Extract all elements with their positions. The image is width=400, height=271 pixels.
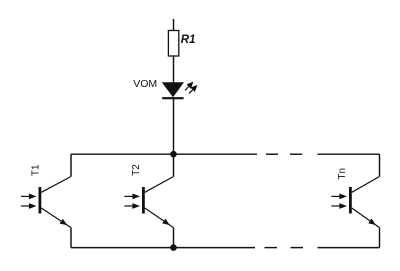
svg-text:VOM: VOM	[133, 78, 157, 90]
transistor T2 light input arrow 1	[124, 194, 140, 200]
LED emission arrow 2	[189, 85, 197, 94]
transistor T1 light input arrow 2	[21, 203, 37, 209]
transistor T2 collector lead	[145, 177, 174, 193]
wire: T2 emitter riser to bottom bus	[173, 228, 175, 248]
transistor T2 emitter lead with arrow	[145, 208, 174, 228]
wire: LED cathode to top bus node	[173, 98, 175, 154]
label Tn	[337, 168, 348, 180]
LED VOM diode triangle (anode)	[163, 83, 184, 97]
transistor T1 light input arrow 1	[21, 194, 37, 200]
wire: bottom bus dash 2	[291, 247, 304, 249]
wire: bottom bus solid right segment to Tn	[318, 247, 380, 249]
wire: top bus dash 1	[266, 153, 278, 155]
wire: top bus solid right segment to Tn	[318, 153, 380, 155]
transistor Tn light input arrow 2	[331, 203, 347, 209]
transistor T1 collector lead	[41, 177, 71, 193]
svg-text:T2: T2	[131, 164, 142, 176]
transistor T2 light input arrow 2	[124, 203, 140, 209]
label T1	[31, 164, 42, 176]
node junction dot on bottom bus	[170, 244, 177, 251]
wire: top bus solid left segment (T1 to node to dashed gap)	[71, 153, 257, 155]
transistor T1 base bar	[39, 187, 42, 214]
wire: T1 collector riser	[70, 154, 72, 176]
transistor Tn base bar	[349, 187, 352, 214]
transistor Tn collector lead	[352, 177, 380, 193]
transistor T1 emitter lead with arrow	[41, 208, 71, 228]
LED VOM cathode bar	[162, 97, 183, 99]
LED emission arrow 1	[185, 82, 193, 91]
node junction dot on top bus	[170, 151, 177, 158]
label R1	[181, 34, 196, 46]
svg-text:R1: R1	[181, 34, 196, 46]
svg-text:T1: T1	[31, 164, 42, 176]
resistor R1 body	[168, 31, 178, 57]
wire: top feed into R1	[173, 19, 175, 31]
transistor T2 base bar	[142, 187, 145, 214]
transistor Tn light input arrow 1	[331, 194, 347, 200]
transistor Tn emitter lead with arrow	[352, 208, 380, 228]
label T2	[131, 164, 142, 176]
wire: R1 to LED anode	[173, 56, 175, 83]
label VOM	[133, 78, 157, 90]
svg-text:Tn: Tn	[337, 168, 348, 180]
wire: top bus dash 2	[290, 153, 302, 155]
wire: T1 emitter riser to bottom bus	[70, 228, 72, 248]
wire: T2 collector riser	[173, 154, 175, 176]
wire: Tn collector riser	[379, 154, 381, 176]
wire: Tn emitter riser to bottom bus	[379, 228, 381, 248]
wire: bottom bus dash 1	[265, 247, 278, 249]
wire: bottom bus solid left segment	[71, 247, 255, 249]
